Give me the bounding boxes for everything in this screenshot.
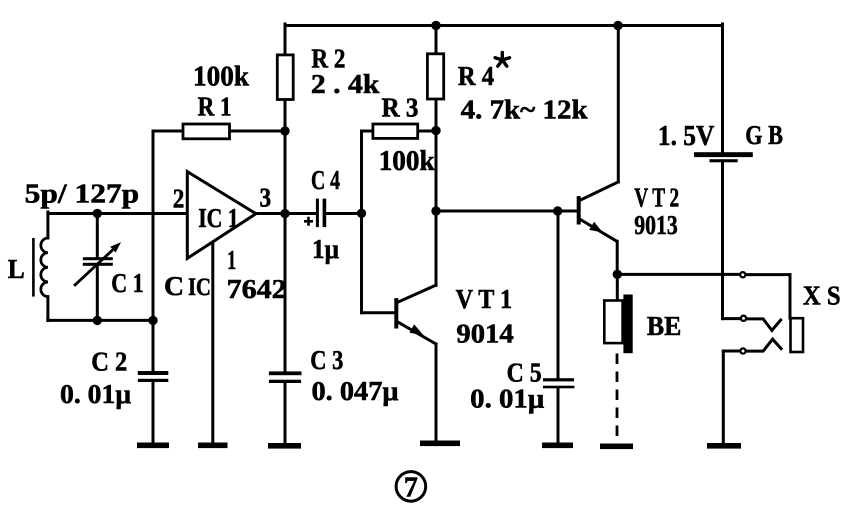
- svg-text:V T 1: V T 1: [456, 284, 512, 314]
- svg-text:0. 047μ: 0. 047μ: [312, 376, 399, 406]
- svg-text:2 . 4k: 2 . 4k: [311, 69, 380, 99]
- svg-text:BE: BE: [647, 311, 682, 341]
- svg-text:C 4: C 4: [311, 165, 340, 195]
- svg-text:R 3: R 3: [382, 93, 419, 123]
- svg-text:L: L: [8, 254, 25, 284]
- svg-text:9013: 9013: [634, 210, 678, 240]
- svg-text:X S: X S: [803, 281, 841, 311]
- svg-text:9014: 9014: [456, 318, 513, 348]
- svg-text:IC 1: IC 1: [198, 203, 239, 233]
- svg-text:2: 2: [173, 183, 185, 213]
- svg-text:C: C: [164, 271, 184, 301]
- svg-text:C 1: C 1: [111, 268, 144, 298]
- svg-text:1: 1: [227, 245, 236, 275]
- svg-text:100k: 100k: [379, 146, 435, 177]
- svg-text:IC: IC: [188, 274, 211, 301]
- svg-text:1μ: 1μ: [312, 234, 339, 264]
- svg-text:R 1: R 1: [198, 91, 232, 121]
- svg-text:3: 3: [260, 182, 272, 212]
- svg-text:4. 7k~ 12k: 4. 7k~ 12k: [461, 95, 588, 125]
- svg-text:7642: 7642: [227, 274, 287, 304]
- svg-text:R 4: R 4: [458, 61, 494, 91]
- svg-text:1. 5V: 1. 5V: [658, 121, 715, 152]
- svg-text:100k: 100k: [193, 62, 249, 93]
- svg-text:V T 2: V T 2: [634, 183, 679, 213]
- svg-text:7: 7: [404, 473, 418, 504]
- svg-text:G B: G B: [745, 120, 783, 150]
- svg-text:5p/ 127p: 5p/ 127p: [25, 178, 140, 208]
- svg-text:0. 01μ: 0. 01μ: [470, 384, 544, 414]
- svg-text:0. 01μ: 0. 01μ: [60, 379, 131, 409]
- svg-text:C 2: C 2: [91, 347, 127, 377]
- svg-text:C 3: C 3: [310, 345, 343, 375]
